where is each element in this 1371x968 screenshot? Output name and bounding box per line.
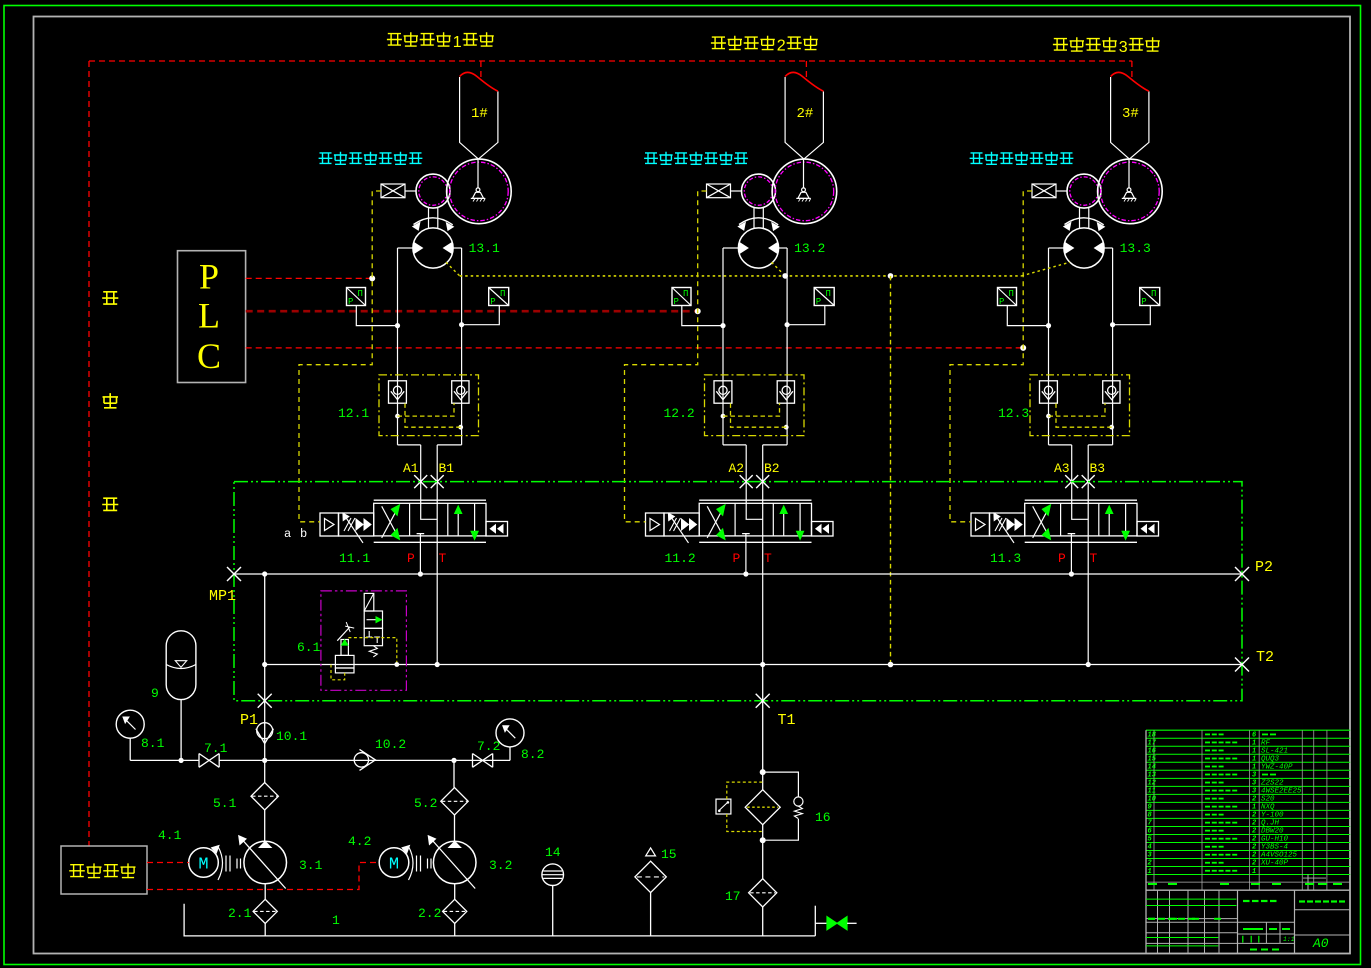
title 变桨叶片3系统 bbox=[1053, 39, 1068, 51]
svg-text:4.2: 4.2 bbox=[348, 834, 371, 849]
red control to motors bbox=[147, 862, 189, 864]
label 角度位移传感器 2 bbox=[644, 153, 658, 164]
return filter 16 bbox=[762, 665, 764, 773]
pilot lines yellow bbox=[348, 638, 396, 665]
supply header line bbox=[130, 759, 510, 761]
P rail bbox=[234, 573, 1242, 575]
svg-text:2: 2 bbox=[777, 37, 786, 54]
svg-text:7.2: 7.2 bbox=[477, 739, 500, 754]
title 变桨叶片2系统 bbox=[711, 37, 726, 49]
relief valve assembly 6.1 boundary bbox=[321, 591, 407, 690]
label 角度位移传感器 3 bbox=[970, 153, 984, 164]
svg-text:P: P bbox=[1058, 551, 1066, 566]
svg-text:MP1: MP1 bbox=[209, 588, 236, 605]
svg-text:1#: 1# bbox=[471, 106, 488, 122]
filter 5.2 bbox=[441, 788, 468, 815]
svg-text:A1: A1 bbox=[403, 461, 419, 476]
svg-text:3.1: 3.1 bbox=[299, 858, 323, 873]
svg-text:A4VSO125: A4VSO125 bbox=[1260, 852, 1298, 860]
svg-text:5.2: 5.2 bbox=[414, 796, 437, 811]
svg-text:a: a bbox=[284, 527, 291, 541]
svg-text:13: 13 bbox=[1148, 772, 1157, 780]
svg-text:1: 1 bbox=[453, 34, 462, 51]
electric motor M bbox=[379, 848, 409, 878]
svg-text:11.1: 11.1 bbox=[339, 551, 370, 566]
svg-text:A3: A3 bbox=[1054, 461, 1070, 476]
svg-text:1: 1 bbox=[1252, 764, 1256, 772]
T rail bbox=[265, 664, 1242, 666]
svg-text:YWZ-40P: YWZ-40P bbox=[1261, 764, 1293, 772]
svg-text:1: 1 bbox=[1252, 755, 1256, 763]
left margin text 潮流能 bbox=[102, 292, 118, 304]
svg-text:10.2: 10.2 bbox=[375, 737, 406, 752]
svg-text:18: 18 bbox=[1148, 731, 1157, 739]
svg-text:Y-100: Y-100 bbox=[1261, 812, 1284, 820]
svg-text:7.1: 7.1 bbox=[204, 741, 228, 756]
svg-text:M: M bbox=[198, 856, 208, 875]
svg-text:T: T bbox=[439, 551, 447, 566]
svg-text:RF: RF bbox=[1261, 739, 1271, 747]
svg-text:Y3BS-4: Y3BS-4 bbox=[1261, 844, 1289, 852]
svg-text:11: 11 bbox=[1148, 788, 1156, 796]
svg-text:8.2: 8.2 bbox=[521, 747, 544, 762]
motor drain yellow dotted line bbox=[460, 275, 1022, 277]
svg-text:4.1: 4.1 bbox=[158, 828, 182, 843]
svg-text:1: 1 bbox=[1252, 739, 1256, 747]
svg-text:P: P bbox=[199, 257, 219, 297]
PLC signal line 2 bbox=[246, 310, 698, 313]
clogging switch bbox=[716, 799, 731, 814]
svg-text:1: 1 bbox=[1252, 868, 1256, 876]
svg-text:4: 4 bbox=[1148, 844, 1152, 852]
title block bbox=[1146, 729, 1350, 731]
svg-text:T1: T1 bbox=[778, 712, 796, 729]
title 变桨叶片1系统 bbox=[387, 34, 402, 46]
suction filter 2.1 bbox=[253, 899, 277, 923]
svg-text:9: 9 bbox=[1148, 804, 1152, 812]
drain shut-off valve (green) bbox=[814, 906, 816, 936]
check valve 10.1 bbox=[262, 758, 267, 763]
svg-text:10.1: 10.1 bbox=[276, 729, 307, 744]
svg-text:S20: S20 bbox=[1261, 796, 1275, 804]
svg-text:10: 10 bbox=[1148, 796, 1156, 804]
svg-text:L: L bbox=[198, 296, 220, 336]
svg-text:P2: P2 bbox=[1255, 559, 1273, 576]
svg-text:QUQ3: QUQ3 bbox=[1261, 755, 1280, 763]
coupling bbox=[417, 856, 432, 872]
pilot relief valve bbox=[337, 627, 349, 641]
junction dots on PLC lines bbox=[369, 275, 375, 281]
svg-text:16: 16 bbox=[1148, 747, 1157, 755]
svg-text:A2: A2 bbox=[729, 461, 745, 476]
svg-text:GU-H10: GU-H10 bbox=[1261, 836, 1289, 844]
svg-text:P: P bbox=[407, 551, 415, 566]
check valve 10.2 bbox=[354, 753, 368, 767]
PLC red dashed bus frame bbox=[89, 60, 1132, 62]
svg-text:M: M bbox=[389, 856, 399, 875]
svg-text:2.1: 2.1 bbox=[228, 906, 252, 921]
svg-text:DBW20: DBW20 bbox=[1261, 828, 1284, 836]
svg-text:16: 16 bbox=[815, 810, 831, 825]
port T1 bbox=[756, 694, 770, 708]
filter 5.1 bbox=[251, 783, 278, 810]
suction filter 2.2 bbox=[443, 899, 467, 923]
svg-text:17: 17 bbox=[1148, 739, 1157, 747]
port T2 bbox=[1235, 658, 1249, 672]
svg-text:B3: B3 bbox=[1090, 461, 1106, 476]
manifold boundary (green chain line) bbox=[234, 482, 1242, 701]
svg-text:T: T bbox=[764, 551, 772, 566]
svg-text:13.3: 13.3 bbox=[1120, 241, 1151, 256]
svg-text:2.2: 2.2 bbox=[418, 906, 441, 921]
PLC controller box bbox=[178, 251, 246, 383]
svg-text:3.2: 3.2 bbox=[489, 858, 512, 873]
svg-text:5.1: 5.1 bbox=[213, 796, 237, 811]
svg-text:1: 1 bbox=[1148, 868, 1152, 876]
svg-text:3: 3 bbox=[1119, 39, 1128, 56]
svg-text:1:1: 1:1 bbox=[1283, 936, 1295, 943]
svg-text:T: T bbox=[1090, 551, 1098, 566]
svg-text:12.2: 12.2 bbox=[664, 406, 695, 421]
accumulator 9 bbox=[166, 631, 196, 700]
label 角度位移传感器 1 bbox=[319, 153, 333, 164]
svg-text:1: 1 bbox=[332, 913, 340, 928]
svg-text:8.1: 8.1 bbox=[141, 736, 165, 751]
svg-text:B2: B2 bbox=[764, 461, 780, 476]
pitch system 2 bbox=[625, 72, 837, 667]
coupling bbox=[226, 856, 241, 872]
svg-text:C: C bbox=[197, 336, 221, 376]
electric motor M bbox=[189, 848, 219, 878]
tank line 1 bbox=[184, 904, 815, 936]
pressure gauge 8.2 bbox=[496, 719, 524, 747]
svg-text:12.3: 12.3 bbox=[998, 406, 1029, 421]
variable pump 3.1 bbox=[244, 841, 287, 884]
svg-text:T2: T2 bbox=[1256, 649, 1274, 666]
潮流发电 generator box bbox=[61, 846, 147, 894]
PLC signal line 1 bbox=[246, 277, 373, 279]
svg-text:9: 9 bbox=[151, 686, 159, 701]
svg-text:1: 1 bbox=[1252, 804, 1256, 812]
svg-text:SL-421: SL-421 bbox=[1261, 747, 1288, 755]
shut-off valve 7.2 bbox=[473, 754, 493, 768]
svg-text:1: 1 bbox=[1252, 747, 1256, 755]
pitch system 3 bbox=[950, 72, 1162, 667]
variable pump 3.2 bbox=[433, 841, 476, 884]
port P1 bbox=[258, 694, 272, 708]
junction to pump2 bbox=[451, 758, 456, 763]
svg-text:13.1: 13.1 bbox=[469, 241, 500, 256]
svg-text:12.1: 12.1 bbox=[338, 406, 369, 421]
svg-text:12: 12 bbox=[1148, 780, 1157, 788]
svg-text:15: 15 bbox=[1148, 755, 1157, 763]
solenoid unloading valve bbox=[364, 593, 374, 611]
svg-text:17: 17 bbox=[725, 889, 741, 904]
svg-text:14: 14 bbox=[545, 845, 561, 860]
svg-text:A0: A0 bbox=[1312, 936, 1329, 951]
return filter 17 bbox=[749, 879, 777, 907]
svg-text:2#: 2# bbox=[797, 106, 814, 122]
pitch system 1 bbox=[299, 72, 511, 667]
svg-text:Q.JH: Q.JH bbox=[1261, 820, 1280, 828]
svg-text:Z2S22: Z2S22 bbox=[1260, 780, 1284, 788]
svg-text:15: 15 bbox=[661, 847, 677, 862]
svg-text:3#: 3# bbox=[1122, 106, 1139, 122]
svg-text:13.2: 13.2 bbox=[794, 241, 825, 256]
svg-text:B1: B1 bbox=[439, 461, 455, 476]
svg-text:b: b bbox=[300, 527, 307, 541]
svg-text:XU-40P: XU-40P bbox=[1260, 860, 1289, 868]
port P2 bbox=[1235, 567, 1249, 581]
svg-text:11.2: 11.2 bbox=[665, 551, 696, 566]
svg-text:11.3: 11.3 bbox=[990, 551, 1021, 566]
svg-text:4WSE2EE25: 4WSE2EE25 bbox=[1261, 788, 1302, 796]
svg-text:P: P bbox=[733, 551, 741, 566]
shut-off valve 7.1 bbox=[199, 754, 219, 768]
port MP1 bbox=[227, 567, 241, 581]
pressure gauge 8.1 bbox=[116, 710, 144, 738]
level gauge 14 bbox=[542, 864, 564, 886]
air breather 15 bbox=[635, 861, 666, 892]
svg-text:P1: P1 bbox=[240, 712, 258, 729]
svg-text:6.1: 6.1 bbox=[297, 640, 321, 655]
bypass check with spring bbox=[763, 772, 799, 797]
svg-text:14: 14 bbox=[1148, 764, 1156, 772]
drain drop to tank rail bbox=[890, 276, 892, 665]
pump pressure riser bbox=[264, 574, 266, 760]
PLC signal line 3 bbox=[246, 347, 1024, 349]
svg-text:NXQ: NXQ bbox=[1261, 804, 1275, 812]
